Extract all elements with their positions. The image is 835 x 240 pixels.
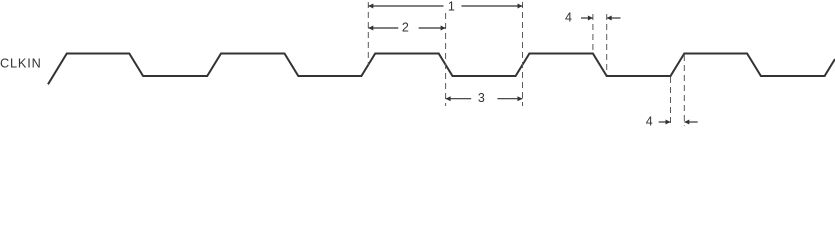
wire: CLKIN clock waveform [48,54,835,85]
dimension 2: high pulse width arrow [368,27,445,29]
node: dashed extension line at falling edge (right of span 2, left of span 3) [445,13,447,106]
dimension 1: clock period arrow [368,5,522,7]
svg-text:4: 4 [646,115,653,129]
node: dashed extension line at fall end (right of top span 4) [606,14,608,75]
node: dashed extension line at fall start (left of top span 4) [592,14,594,54]
node: dashed extension line at rise start (left of bottom span 4) [670,77,672,126]
node: dashed extension line at rising edge (left of spans 1 and 2) [367,2,369,65]
dimension 4 (bottom): rise time arrows [659,121,671,123]
svg-text:2: 2 [402,21,409,35]
svg-text:1: 1 [448,0,455,14]
dimension 3: low pulse width arrow [446,98,523,100]
node: dashed extension line at next rising edge (right of spans 1 and 3) [522,2,524,106]
svg-text:3: 3 [478,91,485,105]
svg-text:CLKIN: CLKIN [0,57,42,71]
node: dashed extension line at rise end (right of bottom span 4) [683,55,685,126]
svg-text:4: 4 [565,11,572,25]
dimension 4 (top): fall time arrows [581,17,593,19]
